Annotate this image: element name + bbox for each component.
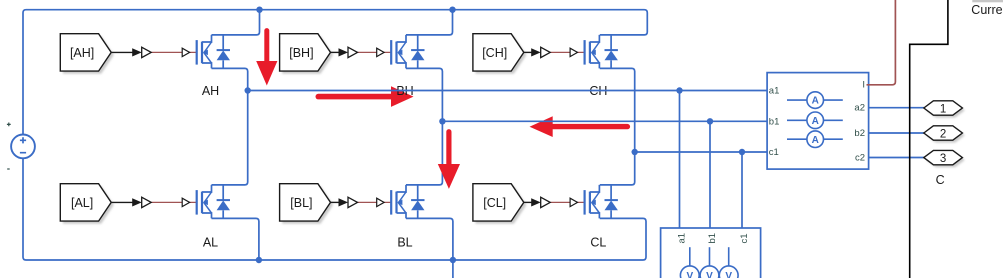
svg-text:A: A — [812, 135, 819, 146]
shadow strip (block above, cut off) — [972, 0, 1003, 2]
annotation: red arrow down (phase A top) — [256, 31, 277, 86]
wire: gate signal BL — [331, 198, 349, 206]
annotation: red arrow left (phase B) — [530, 116, 628, 137]
voltmeter V1 — [680, 247, 699, 278]
transistor AL (MOSFET with body diode) — [197, 185, 230, 219]
voltage measurement block U2 — [661, 228, 761, 278]
wire: phase C leg (CH emitter to CL collector) — [600, 68, 635, 184]
port triangle 2 (AL) — [182, 198, 189, 206]
wire: gate signal AL — [111, 198, 142, 206]
ammeter A2 — [787, 112, 843, 129]
From tag [BL] — [280, 184, 334, 224]
outport 1 — [924, 101, 965, 118]
svg-text:A: A — [812, 96, 819, 107]
svg-text:c2: c2 — [855, 152, 865, 163]
port triangle 1 (BL) — [348, 197, 358, 207]
port triangle 1 (AL) — [142, 197, 152, 207]
svg-text:a1: a1 — [769, 86, 780, 97]
ammeter A3 — [787, 131, 843, 148]
wire: b2 to outport 2 — [869, 132, 924, 134]
transistor BH (MOSFET with body diode) — [391, 35, 424, 69]
wire: gate signal BH — [331, 48, 349, 56]
svg-text:V: V — [686, 271, 693, 278]
subsystem boundary line — [910, 0, 948, 278]
annotation: red arrow right (phase A) — [318, 86, 413, 107]
wire: current measurement I output (maroon) — [867, 0, 896, 85]
node: phase A tap junction — [676, 87, 682, 93]
svg-text:a1: a1 — [677, 233, 688, 244]
node: BH collector junction on top rail — [449, 7, 455, 13]
svg-text:[CL]: [CL] — [483, 196, 506, 210]
svg-text:A: A — [812, 116, 819, 127]
wire: phase B node line — [442, 120, 767, 122]
From tag [CL] — [473, 184, 527, 224]
wire: gate signal CH — [524, 48, 541, 56]
node: phase A at leg — [245, 87, 251, 93]
From tag [AH] — [60, 34, 114, 74]
svg-text:b1: b1 — [769, 117, 780, 128]
current measurement block U1 — [767, 73, 869, 170]
DC voltage source V1 — [7, 123, 35, 170]
annotation: red arrow down (phase B to BL) — [438, 132, 460, 189]
wire: negative DC bus (bottom rail) — [23, 158, 646, 260]
svg-text:V: V — [725, 271, 732, 278]
wire: gate connection (maroon) CH — [550, 51, 584, 53]
svg-text:[BL]: [BL] — [290, 196, 312, 210]
port triangle 1 (BH) — [348, 47, 358, 57]
node: phase B at leg — [439, 118, 445, 124]
outport 2 — [924, 126, 965, 143]
wire: gate connection (maroon) AL — [151, 201, 196, 203]
wire: BH collector to top rail — [406, 10, 453, 35]
svg-text:AL: AL — [203, 235, 218, 249]
port triangle 1 (CH) — [541, 47, 551, 57]
ammeter A1 — [787, 92, 843, 109]
wire: phase B leg (BH emitter to BL collector) — [406, 68, 442, 184]
port triangle 2 (AH) — [182, 48, 189, 56]
wire: a2 to outport 1 — [869, 107, 924, 109]
voltmeter V2 — [700, 247, 719, 278]
port triangle 2 (CL) — [570, 198, 577, 206]
wire: AL emitter to bottom rail — [212, 218, 259, 260]
From tag [BH] — [280, 34, 334, 74]
wire: phase A tap to voltage block — [679, 91, 681, 229]
transistor CH (MOSFET with body diode) — [585, 35, 618, 69]
wire: gate signal AH — [111, 48, 142, 56]
transistor BL (MOSFET with body diode) — [391, 185, 424, 219]
wire: BL emitter to bottom rail — [406, 218, 453, 260]
wire: positive DC bus (top rail) — [23, 10, 647, 135]
svg-text:[BH]: [BH] — [289, 46, 313, 60]
node: phase C tap junction — [739, 149, 745, 155]
wire: phase C node line — [635, 151, 767, 153]
svg-text:b1: b1 — [707, 233, 718, 244]
svg-text:1: 1 — [940, 103, 946, 115]
wire: phase C tap to voltage block — [741, 152, 743, 228]
port triangle 1 (AH) — [142, 47, 152, 57]
node: AH collector junction on top rail — [256, 7, 262, 13]
svg-text:3: 3 — [940, 153, 946, 165]
transistor CL (MOSFET with body diode) — [585, 185, 618, 219]
node: BL emitter junction on bottom rail — [450, 257, 456, 263]
node: phase C at leg — [632, 149, 638, 155]
svg-text:[AH]: [AH] — [70, 46, 94, 60]
wire: phase A leg (AH emitter to AL collector) — [212, 68, 248, 184]
svg-text:C: C — [936, 173, 945, 187]
wire: AH collector to top rail — [212, 10, 260, 35]
outport 3 — [924, 150, 965, 167]
wire: gate connection (maroon) CL — [550, 201, 584, 203]
svg-text:[AL]: [AL] — [71, 196, 93, 210]
port triangle 2 (BL) — [377, 198, 384, 206]
node: phase B tap junction — [707, 118, 713, 124]
From tag [CH] — [473, 34, 527, 74]
voltmeter V3 — [719, 247, 738, 278]
wire: phase A node line — [248, 90, 767, 92]
port triangle 1 (CL) — [541, 197, 551, 207]
wire: gate signal CL — [524, 198, 541, 206]
svg-text:2: 2 — [940, 128, 946, 140]
node: AL emitter junction on bottom rail — [256, 257, 262, 263]
svg-text:[CH]: [CH] — [482, 46, 507, 60]
transistor AH (MOSFET with body diode) — [197, 35, 230, 69]
svg-text:c1: c1 — [739, 233, 750, 243]
wire: gate connection (maroon) AH — [151, 51, 196, 53]
svg-text:AH: AH — [202, 84, 219, 98]
wire: gate connection (maroon) BL — [358, 201, 391, 203]
svg-text:CL: CL — [590, 235, 606, 249]
port triangle 2 (BH) — [377, 48, 384, 56]
port triangle 2 (CH) — [570, 48, 577, 56]
svg-text:BL: BL — [397, 235, 412, 249]
svg-text:b2: b2 — [854, 128, 865, 139]
svg-text:a2: a2 — [854, 103, 865, 114]
From tag [AL] — [60, 184, 114, 224]
svg-text:V: V — [706, 271, 713, 278]
wire: gate connection (maroon) BH — [358, 51, 391, 53]
svg-text:Curren: Curren — [971, 3, 1003, 17]
wire: c2 to outport 3 — [869, 157, 924, 159]
svg-text:c1: c1 — [769, 147, 779, 158]
wire: phase B tap to voltage block — [709, 121, 711, 228]
svg-text:I: I — [862, 80, 865, 91]
wire: stub below BL junction — [452, 260, 454, 278]
